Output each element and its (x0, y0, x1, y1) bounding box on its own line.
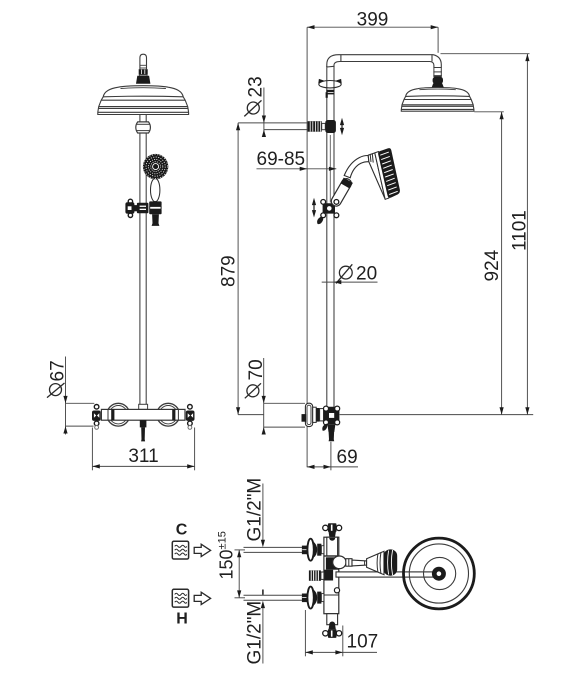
drop pipe to head (side) (433, 68, 441, 77)
side valve knob button (dark) (302, 414, 307, 422)
wall plane line (plan) (304, 610, 306, 656)
rotation arrow around riser (318, 79, 341, 88)
bottom cross handle (plan) (323, 624, 342, 638)
riser pipe (front) (140, 115, 146, 410)
handshower cone (plan) (367, 551, 384, 574)
top inlet hex nut (plan) (302, 546, 308, 555)
svg-text:H: H (176, 611, 188, 628)
dimension 150 line + arrows (235, 550, 246, 598)
handshower neck tube (plan) (352, 560, 367, 566)
svg-text:879: 879 (219, 255, 240, 287)
svg-text:311: 311 (128, 446, 158, 467)
big head disc (plan) (404, 538, 475, 609)
dimension D67 lines (66, 357, 95, 435)
dimension 399 arrows (307, 25, 314, 29)
leader G1/2"M top (262, 484, 264, 541)
mixer valve left knob circle (front) (107, 403, 130, 426)
dimension D67 arrows (63, 396, 67, 403)
slide holder sleeve on pipe (front) (137, 203, 149, 214)
swivel nut (dark knurled) (139, 69, 148, 76)
top flange ring stack (317, 544, 324, 556)
outlet spout below valve (front) (140, 420, 147, 441)
collar ring on riser (326, 90, 334, 92)
svg-text:20: 20 (356, 264, 377, 285)
arm rod to head (plan) (336, 572, 434, 577)
temp adjuster ribbed block (plan) (309, 570, 324, 580)
mixer valve body bar (front) (101, 409, 185, 420)
handshower cradle + collar (front) (149, 201, 161, 214)
wall flange ribbed (side) (308, 121, 322, 132)
svg-text:107: 107 (347, 631, 379, 652)
slider bracket pins (321, 200, 339, 218)
riser pipe (side) (327, 66, 334, 407)
handshower cone (side) (368, 153, 385, 199)
dimension 879 arrows (236, 123, 240, 130)
up-down adjust arrow (bracket) (340, 118, 344, 136)
bottom inlet pipe lines (244, 595, 303, 600)
dimension D67 label (47, 360, 69, 397)
handshower grip (side) (329, 177, 353, 208)
valve centerline extension (left) (238, 414, 264, 416)
dimension 69-85 arrows (300, 167, 307, 171)
svg-text:924: 924 (482, 249, 503, 281)
side valve ring stack (313, 407, 324, 422)
side valve outlet (dark) (327, 424, 335, 441)
dimension 879 line (237, 123, 239, 415)
leader G1/2"M bottom (262, 607, 264, 664)
up-down adjust arrow (slider) (312, 198, 316, 218)
dimension D70 lines (264, 358, 305, 435)
svg-text:69-85: 69-85 (257, 149, 306, 170)
handshower face band (plan, dark) (384, 549, 398, 575)
dimension 69-85 line (257, 168, 337, 170)
ball joint (front) (136, 122, 151, 133)
top bonnet (plan) (327, 537, 338, 556)
rain head bell (side) (401, 88, 474, 112)
pipe clamp (side, dark) (325, 120, 336, 133)
bracket neck (322, 123, 326, 129)
wall plane line (306, 27, 308, 467)
handshower head (side) (368, 148, 400, 199)
svg-text:23: 23 (246, 76, 267, 97)
handshower handle (front) (151, 178, 160, 201)
cold inlet arrow (194, 544, 210, 556)
bottom escutcheon flange (plan) (307, 587, 317, 609)
bottom bonnet (plan) (327, 614, 338, 625)
dimension D23 lines + arrows (263, 88, 265, 136)
handshower spray head (front) (143, 154, 168, 179)
top escutcheon flange (plan) (307, 539, 317, 561)
bottom inlet hex nut (plan) (302, 594, 308, 603)
handshower neck (side) (344, 155, 369, 177)
dimension D70 label (245, 359, 267, 398)
hook mark under collar (327, 92, 335, 98)
cold water icon (172, 541, 188, 559)
handshower grip (front, dark) (152, 214, 160, 226)
handshower rim plate (side) (375, 152, 389, 200)
hang rod line on pipe (329, 135, 331, 203)
dimension 924 lines (474, 112, 504, 415)
body section lines (plan) (324, 555, 339, 557)
dimension D20 label (336, 264, 377, 285)
dimension 1101 lines (441, 54, 530, 415)
valve centerline extension (right) (340, 414, 534, 416)
collar (dark trapezoid) (136, 76, 150, 84)
top inlet pipe lines (244, 547, 303, 552)
ball joint (side, dark) (432, 77, 444, 88)
dimension D20 leader (322, 281, 378, 283)
inlet collar above valve (front) (139, 404, 148, 409)
bottom flange ring stack (317, 592, 324, 604)
dimension D23 label (244, 76, 266, 116)
dimension 311 lines (92, 428, 194, 471)
wall bracket arm (side) (238, 123, 308, 130)
side valve cross-handle end-on block (322, 406, 339, 431)
top nipple pipe (140, 54, 147, 69)
left cross handle (front) (92, 405, 101, 430)
handshower collar rings (plan) (346, 559, 352, 567)
hot water icon (172, 589, 188, 607)
top cross handle (plan) (323, 523, 342, 537)
dimension 69 lines (307, 442, 358, 471)
mixer valve right knob circle (front) (157, 403, 180, 426)
dimension 311 arrows (92, 464, 99, 468)
side valve flange (305, 403, 312, 426)
side port circle (plan) (334, 588, 339, 593)
holder knob (front) (125, 199, 134, 217)
rain head bell (front) (98, 86, 189, 115)
svg-text:69: 69 (337, 447, 358, 468)
holder arm (front) (134, 205, 137, 211)
dimension 107 lines (305, 626, 377, 657)
handshower spray cap (side) (378, 148, 400, 198)
valve body column (plan) (324, 537, 339, 614)
top horizontal pipe with elbows (side) (327, 55, 442, 68)
svg-text:C: C (176, 522, 188, 539)
dimension 399 lines (307, 27, 438, 53)
diverter blocks (plan, dark) (324, 557, 339, 580)
handshower grip oval (plan) (333, 556, 346, 569)
hot inlet arrow (194, 592, 210, 604)
right cross handle (front) (186, 405, 195, 430)
slider bracket (side) (317, 203, 335, 224)
